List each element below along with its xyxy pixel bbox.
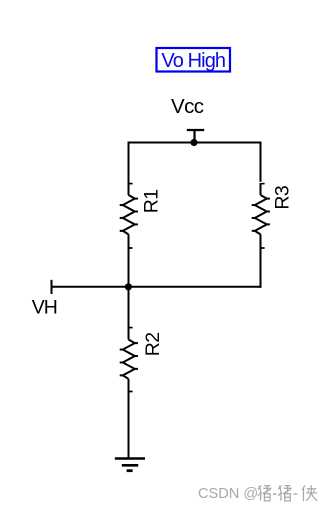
svg-text:Vo High: Vo High	[161, 50, 225, 72]
svg-text:R3: R3	[272, 186, 294, 210]
svg-text:VH: VH	[32, 297, 57, 319]
svg-text:CSDN @: CSDN @	[198, 486, 258, 502]
svg-text:R2: R2	[142, 332, 164, 356]
svg-text:Vcc: Vcc	[171, 95, 204, 118]
svg-text:R1: R1	[140, 189, 162, 213]
